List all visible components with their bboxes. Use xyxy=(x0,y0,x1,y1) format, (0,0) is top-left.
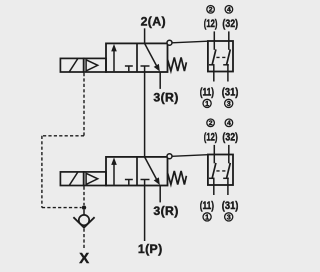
terminal label circled 2 SW2 xyxy=(207,119,215,127)
valve V1 flow path 2-to-3 diagonal xyxy=(145,44,157,66)
contact lever 12 SW2 xyxy=(212,163,216,178)
port 3(R) stub V2 xyxy=(159,186,161,203)
valve V2 blocked port 1 bar xyxy=(141,179,150,181)
pilot P1 box xyxy=(84,58,106,72)
wire terminal 12 top xyxy=(213,31,215,49)
pilot line V2 down xyxy=(83,187,85,206)
port 3(R) stub V1 xyxy=(159,72,161,89)
solenoid SOL2 slash xyxy=(69,172,78,185)
valve V1 body xyxy=(106,43,168,72)
svg-text:(31): (31) xyxy=(222,86,239,98)
junction dot xyxy=(82,205,86,209)
valve V2 flow path 2-to-3 arrowhead xyxy=(154,177,160,185)
wire terminal 12 top SW2 xyxy=(213,145,215,163)
svg-text:4: 4 xyxy=(227,7,231,14)
valve V1 flow arrow 1-to-2 shaft xyxy=(113,50,115,71)
valve V2 flow path 2-to-3 diagonal xyxy=(145,157,157,179)
svg-text:1: 1 xyxy=(205,213,209,222)
svg-text:1(P): 1(P) xyxy=(138,242,163,256)
pilot P2 triangle xyxy=(86,173,98,184)
svg-text:2: 2 xyxy=(209,120,213,127)
solenoid SOL1 box xyxy=(60,58,83,72)
valve V1 position divider xyxy=(136,43,138,72)
valve V2 body xyxy=(106,157,168,186)
valve V1 blocked port 1 bar xyxy=(141,65,150,67)
return spring S2 xyxy=(168,171,187,185)
contact lever 12 xyxy=(212,49,216,64)
valve V1 flow arrow 1-to-2 head xyxy=(111,44,117,52)
svg-text:(11): (11) xyxy=(200,86,215,98)
terminal label circled 1 SW2 xyxy=(203,213,211,222)
wire 1(P) through line lower xyxy=(144,180,146,242)
svg-text:(12): (12) xyxy=(204,132,218,144)
svg-text:(31): (31) xyxy=(222,200,239,212)
check valve ball xyxy=(79,215,89,225)
switch box SW2 outline xyxy=(208,155,233,186)
svg-text:3: 3 xyxy=(227,99,231,108)
terminal label circled 4 SW2 xyxy=(225,119,233,127)
switch box SW1 outline xyxy=(208,41,233,72)
contact seat tick 11 xyxy=(209,64,215,66)
electrical pin circle V1 xyxy=(167,40,172,45)
wire terminal 31 bottom SW2 xyxy=(227,178,229,195)
return spring S1 xyxy=(168,57,187,71)
svg-text:3(R): 3(R) xyxy=(153,204,178,218)
svg-text:2(A): 2(A) xyxy=(141,14,166,28)
pilot line V1 down xyxy=(83,73,85,136)
terminal label circled 4 xyxy=(225,6,233,14)
svg-text:3: 3 xyxy=(227,213,231,222)
check valve seat V xyxy=(73,217,94,227)
terminal label circled 3 SW2 xyxy=(225,213,233,222)
pilot line left vertical xyxy=(41,136,43,208)
svg-text:1: 1 xyxy=(205,99,209,108)
svg-text:(32): (32) xyxy=(222,18,238,30)
wire terminal 11 bottom SW2 xyxy=(213,178,215,195)
contact lever 32 xyxy=(227,49,231,64)
solenoid SOL1 slash xyxy=(69,59,78,72)
pilot line to X xyxy=(83,229,85,250)
wire 2(A) stub xyxy=(144,28,146,43)
mechanical coupling dashes SW2 xyxy=(216,170,225,172)
svg-text:(32): (32) xyxy=(222,132,238,144)
svg-text:2: 2 xyxy=(209,7,213,14)
terminal label circled 2 xyxy=(207,6,215,14)
pilot P2 box xyxy=(84,172,106,186)
wire terminal 32 top xyxy=(228,31,230,49)
wire terminal 32 top SW2 xyxy=(228,145,230,163)
svg-text:(12): (12) xyxy=(204,18,218,30)
electrical pin circle V2 xyxy=(167,154,172,159)
terminal label circled 3 xyxy=(225,99,233,108)
terminal label circled 1 xyxy=(203,99,211,108)
valve V1 flow path 2-to-3 arrowhead xyxy=(154,64,160,72)
wire pin to switch box SW2 xyxy=(172,155,208,157)
valve V2 flow arrow 1-to-2 shaft xyxy=(113,164,115,185)
valve V2 position divider xyxy=(136,157,138,186)
contact lever 32 SW2 xyxy=(227,163,231,178)
svg-text:X: X xyxy=(79,251,89,267)
contact seat tick 11 SW2 xyxy=(209,177,215,179)
wire 1(P) through line upper xyxy=(144,66,146,157)
svg-text:3(R): 3(R) xyxy=(153,90,178,104)
svg-text:(11): (11) xyxy=(200,200,215,212)
pilot line horizontal upper xyxy=(42,135,84,137)
mechanical coupling dashes SW1 xyxy=(216,56,225,58)
check valve stem xyxy=(83,210,85,215)
wire pin to switch box SW1 xyxy=(172,41,208,43)
svg-text:4: 4 xyxy=(227,120,231,127)
valve V1 blocked port T left xyxy=(125,66,133,71)
wire terminal 11 bottom xyxy=(213,65,215,82)
valve V2 blocked port T left xyxy=(125,180,133,185)
contact seat tick 31 xyxy=(223,64,229,66)
pilot P1 triangle xyxy=(86,60,98,71)
contact seat tick 31 SW2 xyxy=(223,177,229,179)
pilot line horizontal lower xyxy=(42,207,82,209)
solenoid SOL2 box xyxy=(60,172,83,186)
wire terminal 31 bottom xyxy=(227,65,229,82)
valve V2 flow arrow 1-to-2 head xyxy=(111,157,117,165)
